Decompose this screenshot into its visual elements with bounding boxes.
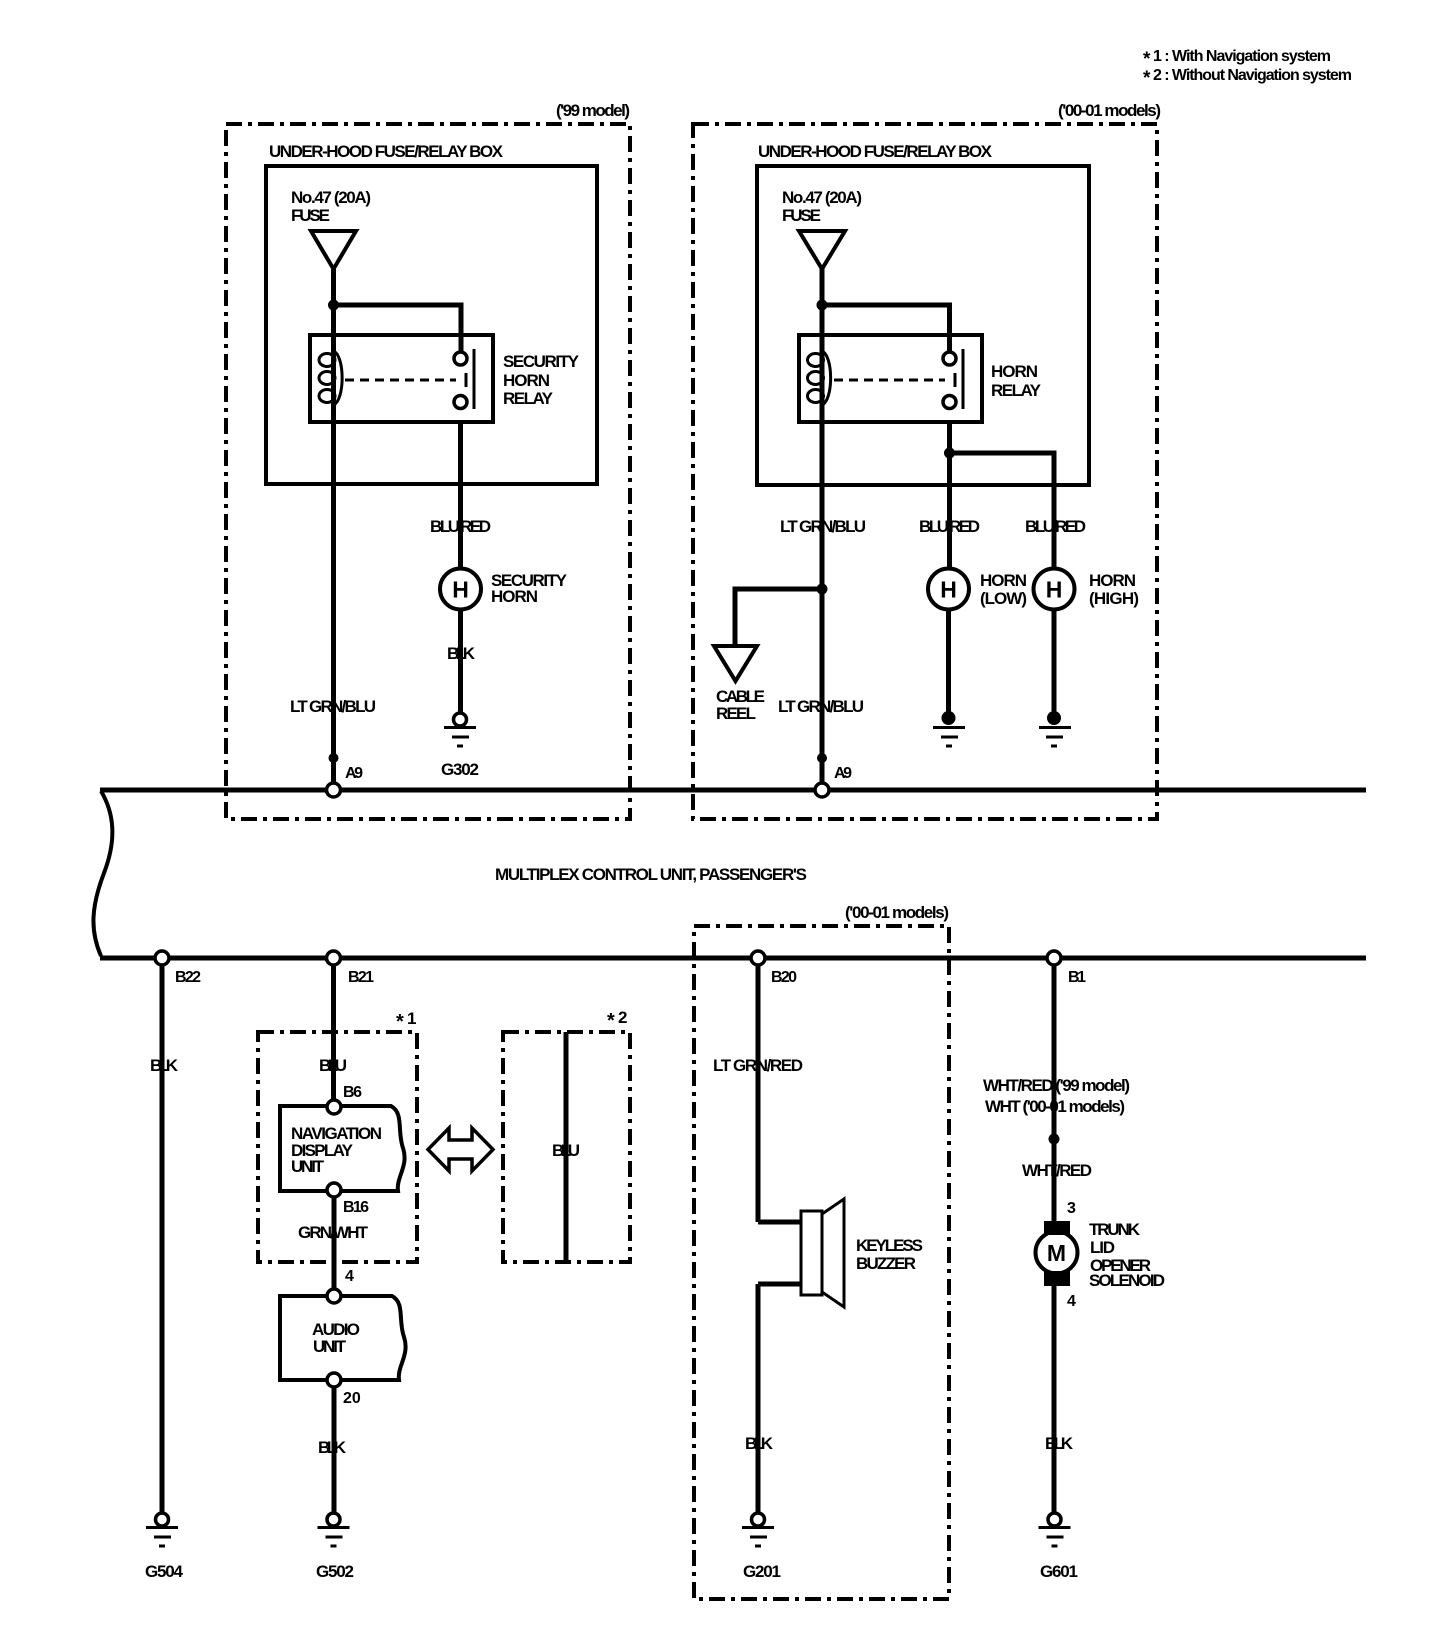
svg-text:HORN: HORN xyxy=(991,362,1038,381)
svg-text:G302: G302 xyxy=(441,760,479,779)
wire relay contact to security horn xyxy=(458,422,463,569)
navigation display unit box xyxy=(280,1106,405,1191)
security horn xyxy=(440,569,481,610)
svg-text:UNDER-HOOD FUSE/RELAY BOX: UNDER-HOOD FUSE/RELAY BOX xyxy=(269,142,504,161)
svg-text:TRUNK: TRUNK xyxy=(1089,1220,1141,1239)
svg-text:MULTIPLEX CONTROL UNIT, PASSEN: MULTIPLEX CONTROL UNIT, PASSENGER'S xyxy=(495,865,807,884)
svg-text:BLK: BLK xyxy=(318,1438,347,1457)
junction dot below fuse ('00-01) xyxy=(817,300,828,311)
junction dot below fuse ('99) xyxy=(328,300,339,311)
without-navigation *2 dash-dot box xyxy=(503,1032,630,1262)
wire relay contact to horn low xyxy=(947,422,952,569)
svg-text:UNIT: UNIT xyxy=(291,1157,325,1176)
wire B1 to trunk solenoid xyxy=(1052,958,1057,1222)
relay coil wire through box ('00-01) xyxy=(820,335,825,422)
svg-text:20: 20 xyxy=(343,1390,361,1407)
multiplex bus wire lower xyxy=(100,956,1366,961)
navigation *1 dash-dot box xyxy=(258,1032,417,1262)
relay coil wire through box ('99) xyxy=(331,335,336,422)
junction dot above A9 ('99) xyxy=(329,753,339,763)
svg-text:H: H xyxy=(452,577,469,603)
wire horn low to ground xyxy=(946,610,951,713)
label HORN (LOW) xyxy=(980,571,1027,608)
ground G601 xyxy=(1039,1513,1071,1546)
svg-text:LT GRN/RED: LT GRN/RED xyxy=(713,1056,803,1075)
svg-text:H: H xyxy=(1046,577,1063,603)
label SECURITY HORN xyxy=(491,571,568,606)
svg-text:1 : With Navigation system: 1 : With Navigation system xyxy=(1153,48,1331,65)
relay armature dashed line ('99) xyxy=(345,373,466,387)
cable reel arrow xyxy=(714,646,757,681)
wire fuse to relay coil ('00-01) xyxy=(820,269,825,336)
wire relay coil to A9 ('00-01) xyxy=(820,422,825,786)
svg-text:REEL: REEL xyxy=(716,704,756,723)
wire stub from buzzer bottom xyxy=(758,1282,801,1287)
svg-text:BLK: BLK xyxy=(1045,1434,1074,1453)
svg-text:3: 3 xyxy=(1067,1200,1076,1217)
multiplex bus wire upper xyxy=(100,788,1366,793)
svg-text:WHT ('00-01 models): WHT ('00-01 models) xyxy=(985,1097,1125,1116)
svg-text:A9: A9 xyxy=(834,765,852,782)
svg-text:HORN: HORN xyxy=(503,371,550,390)
wire B21 to B6 xyxy=(331,958,336,1103)
bidirectional arrow between *1 and *2 xyxy=(428,1128,493,1171)
wire stub to buzzer top xyxy=(758,1220,801,1225)
svg-text:H: H xyxy=(940,577,957,603)
ground below horn high xyxy=(1039,711,1071,746)
svg-text:SOLENOID: SOLENOID xyxy=(1089,1271,1165,1290)
connector B20 xyxy=(751,951,765,965)
wire solenoid to G601 xyxy=(1052,1286,1057,1513)
relay contact circles ('99) xyxy=(454,352,467,409)
svg-text:RELAY: RELAY xyxy=(503,389,554,408)
horn relay box xyxy=(799,335,982,422)
svg-text:UNDER-HOOD FUSE/RELAY BOX: UNDER-HOOD FUSE/RELAY BOX xyxy=(758,142,993,161)
wire buzzer to G201 xyxy=(756,1284,761,1513)
svg-text:G502: G502 xyxy=(316,1562,354,1581)
svg-text:FUSE: FUSE xyxy=(291,206,330,225)
fuse No.47 ('99) xyxy=(311,231,356,269)
under-hood fuse/relay box inner border ('00-01) xyxy=(757,166,1089,485)
security horn relay box xyxy=(310,335,493,422)
junction dot above A9 ('00-01) xyxy=(817,753,827,763)
svg-text:2 : Without Navigation system: 2 : Without Navigation system xyxy=(1153,67,1352,84)
svg-text:G201: G201 xyxy=(743,1562,781,1581)
svg-text:('00-01 models): ('00-01 models) xyxy=(1058,101,1161,120)
svg-text:LT GRN/BLU: LT GRN/BLU xyxy=(780,517,866,536)
svg-text:No.47 (20A): No.47 (20A) xyxy=(291,188,371,207)
legend note *1/*2 navigation xyxy=(1143,48,1352,89)
svg-text:SECURITY: SECURITY xyxy=(503,352,580,371)
svg-text:4: 4 xyxy=(1067,1293,1076,1310)
ground below horn low xyxy=(933,711,965,746)
svg-text:('99 model): ('99 model) xyxy=(556,101,630,120)
connector circle B6 on nav unit xyxy=(327,1100,341,1114)
label KEYLESS BUZZER xyxy=(856,1236,923,1273)
trunk lid opener solenoid xyxy=(1036,1221,1078,1286)
label CABLE REEL xyxy=(716,687,765,723)
relay contact bar ('00-01) xyxy=(962,349,965,409)
svg-text:BLU/RED: BLU/RED xyxy=(430,517,491,536)
wire junction to relay contact ('00-01) xyxy=(822,305,950,352)
svg-text:*: * xyxy=(1143,68,1151,89)
ground G504 xyxy=(146,1513,178,1546)
label AUDIO UNIT xyxy=(312,1320,360,1356)
svg-text:*: * xyxy=(1143,49,1151,70)
label NAVIGATION DISPLAY UNIT xyxy=(291,1124,382,1176)
wire horn high to ground xyxy=(1052,610,1057,713)
svg-text:KEYLESS: KEYLESS xyxy=(856,1236,923,1255)
wire branch to horn high xyxy=(950,453,1055,569)
svg-text:RELAY: RELAY xyxy=(991,381,1042,400)
svg-text:BLU: BLU xyxy=(319,1056,347,1075)
svg-text:BLU: BLU xyxy=(552,1141,580,1160)
relay contact bar ('99) xyxy=(473,349,476,409)
wire B22 to G504 xyxy=(160,958,165,1513)
relay contact circles ('00-01) xyxy=(943,352,956,409)
svg-text:No.47 (20A): No.47 (20A) xyxy=(782,188,862,207)
wire branch to cable reel xyxy=(735,589,822,646)
label No.47 (20A) FUSE ('99) xyxy=(291,188,371,225)
svg-text:GRN/WHT: GRN/WHT xyxy=(298,1223,369,1242)
relay coil ('00-01) xyxy=(808,351,831,405)
svg-text:HORN: HORN xyxy=(980,571,1027,590)
svg-text:BLK: BLK xyxy=(745,1434,774,1453)
svg-text:BLK: BLK xyxy=(150,1056,179,1075)
connector A9 ('00-01) on bus xyxy=(815,783,829,797)
ground G502 xyxy=(318,1513,350,1546)
svg-text:*: * xyxy=(396,1011,404,1033)
svg-text:B21: B21 xyxy=(348,969,374,986)
connector B22 xyxy=(155,951,169,965)
wire B20 to keyless buzzer xyxy=(756,958,761,1222)
connector B1 xyxy=(1047,951,1061,965)
wire fuse to relay coil ('99) xyxy=(331,269,336,336)
connector B21 xyxy=(327,951,341,965)
label SECURITY HORN RELAY xyxy=(503,352,580,408)
multiplex left break squiggle xyxy=(93,791,112,956)
connector circle pin 20 on audio unit xyxy=(327,1373,341,1387)
connector circle pin 4 on audio unit xyxy=(327,1289,341,1303)
'99 model outer dash-dot box xyxy=(226,124,630,819)
svg-text:WHT/RED: WHT/RED xyxy=(1022,1161,1092,1180)
svg-text:G504: G504 xyxy=(145,1562,184,1581)
svg-text:UNIT: UNIT xyxy=(313,1337,347,1356)
svg-text:1: 1 xyxy=(407,1009,416,1028)
svg-text:4: 4 xyxy=(345,1268,354,1285)
junction dot on B1 wire xyxy=(1049,1134,1060,1145)
svg-text:B20: B20 xyxy=(771,969,797,986)
label HORN (HIGH) xyxy=(1089,571,1139,608)
wire BLU inside *2 box xyxy=(564,1032,569,1262)
svg-text:B1: B1 xyxy=(1068,969,1086,986)
svg-text:M: M xyxy=(1047,1240,1066,1266)
svg-text:LT GRN/BLU: LT GRN/BLU xyxy=(778,697,864,716)
wire security horn to G302 xyxy=(458,610,463,713)
horn (low) xyxy=(928,569,969,610)
connector A9 ('99) on bus xyxy=(327,783,341,797)
svg-text:B16: B16 xyxy=(343,1199,369,1216)
horn (high) xyxy=(1034,569,1075,610)
wire B16 to audio unit pin 4 xyxy=(332,1191,337,1293)
'00-01 models outer dash-dot box xyxy=(693,124,1157,819)
wire junction to relay contact ('99) xyxy=(334,305,462,352)
junction dot horn high branch xyxy=(944,448,955,459)
svg-text:*: * xyxy=(607,1010,615,1032)
svg-text:(LOW): (LOW) xyxy=(980,589,1027,608)
'00-01 bottom dash-dot box xyxy=(694,926,949,1599)
svg-text:2: 2 xyxy=(618,1008,627,1027)
svg-text:BLU/RED: BLU/RED xyxy=(919,517,980,536)
junction dot cable reel branch xyxy=(817,584,828,595)
svg-text:HORN: HORN xyxy=(1089,571,1136,590)
svg-text:BLK: BLK xyxy=(447,644,476,663)
fuse No.47 ('00-01) xyxy=(799,231,845,269)
svg-text:('00-01 models): ('00-01 models) xyxy=(845,903,949,922)
svg-text:(HIGH): (HIGH) xyxy=(1089,589,1139,608)
under-hood fuse/relay box inner border ('99) xyxy=(266,166,597,484)
svg-text:B6: B6 xyxy=(343,1084,362,1101)
svg-text:B22: B22 xyxy=(175,969,201,986)
wire relay coil to A9 ('99) xyxy=(331,422,336,786)
label No.47 (20A) FUSE ('00-01) xyxy=(782,188,862,225)
label HORN RELAY xyxy=(991,362,1042,400)
ground G302 xyxy=(444,713,476,746)
relay armature dashed line ('00-01) xyxy=(834,373,955,387)
wire audio unit pin 20 to G502 xyxy=(332,1380,337,1513)
svg-text:BLU/RED: BLU/RED xyxy=(1025,517,1086,536)
svg-text:WHT/RED ('99 model): WHT/RED ('99 model) xyxy=(983,1076,1130,1095)
relay coil ('99) xyxy=(319,351,342,405)
svg-text:BUZZER: BUZZER xyxy=(856,1254,916,1273)
audio unit box xyxy=(280,1296,406,1380)
connector circle B16 on nav unit xyxy=(327,1183,341,1197)
ground G201 xyxy=(742,1513,774,1546)
svg-text:LT GRN/BLU: LT GRN/BLU xyxy=(290,697,376,716)
svg-text:HORN: HORN xyxy=(491,587,538,606)
label TRUNK LID OPENER SOLENOID xyxy=(1089,1220,1165,1290)
keyless buzzer speaker xyxy=(801,1199,844,1307)
svg-text:A9: A9 xyxy=(345,765,363,782)
svg-text:FUSE: FUSE xyxy=(782,206,821,225)
svg-text:G601: G601 xyxy=(1040,1562,1078,1581)
svg-text:LID: LID xyxy=(1090,1238,1115,1257)
